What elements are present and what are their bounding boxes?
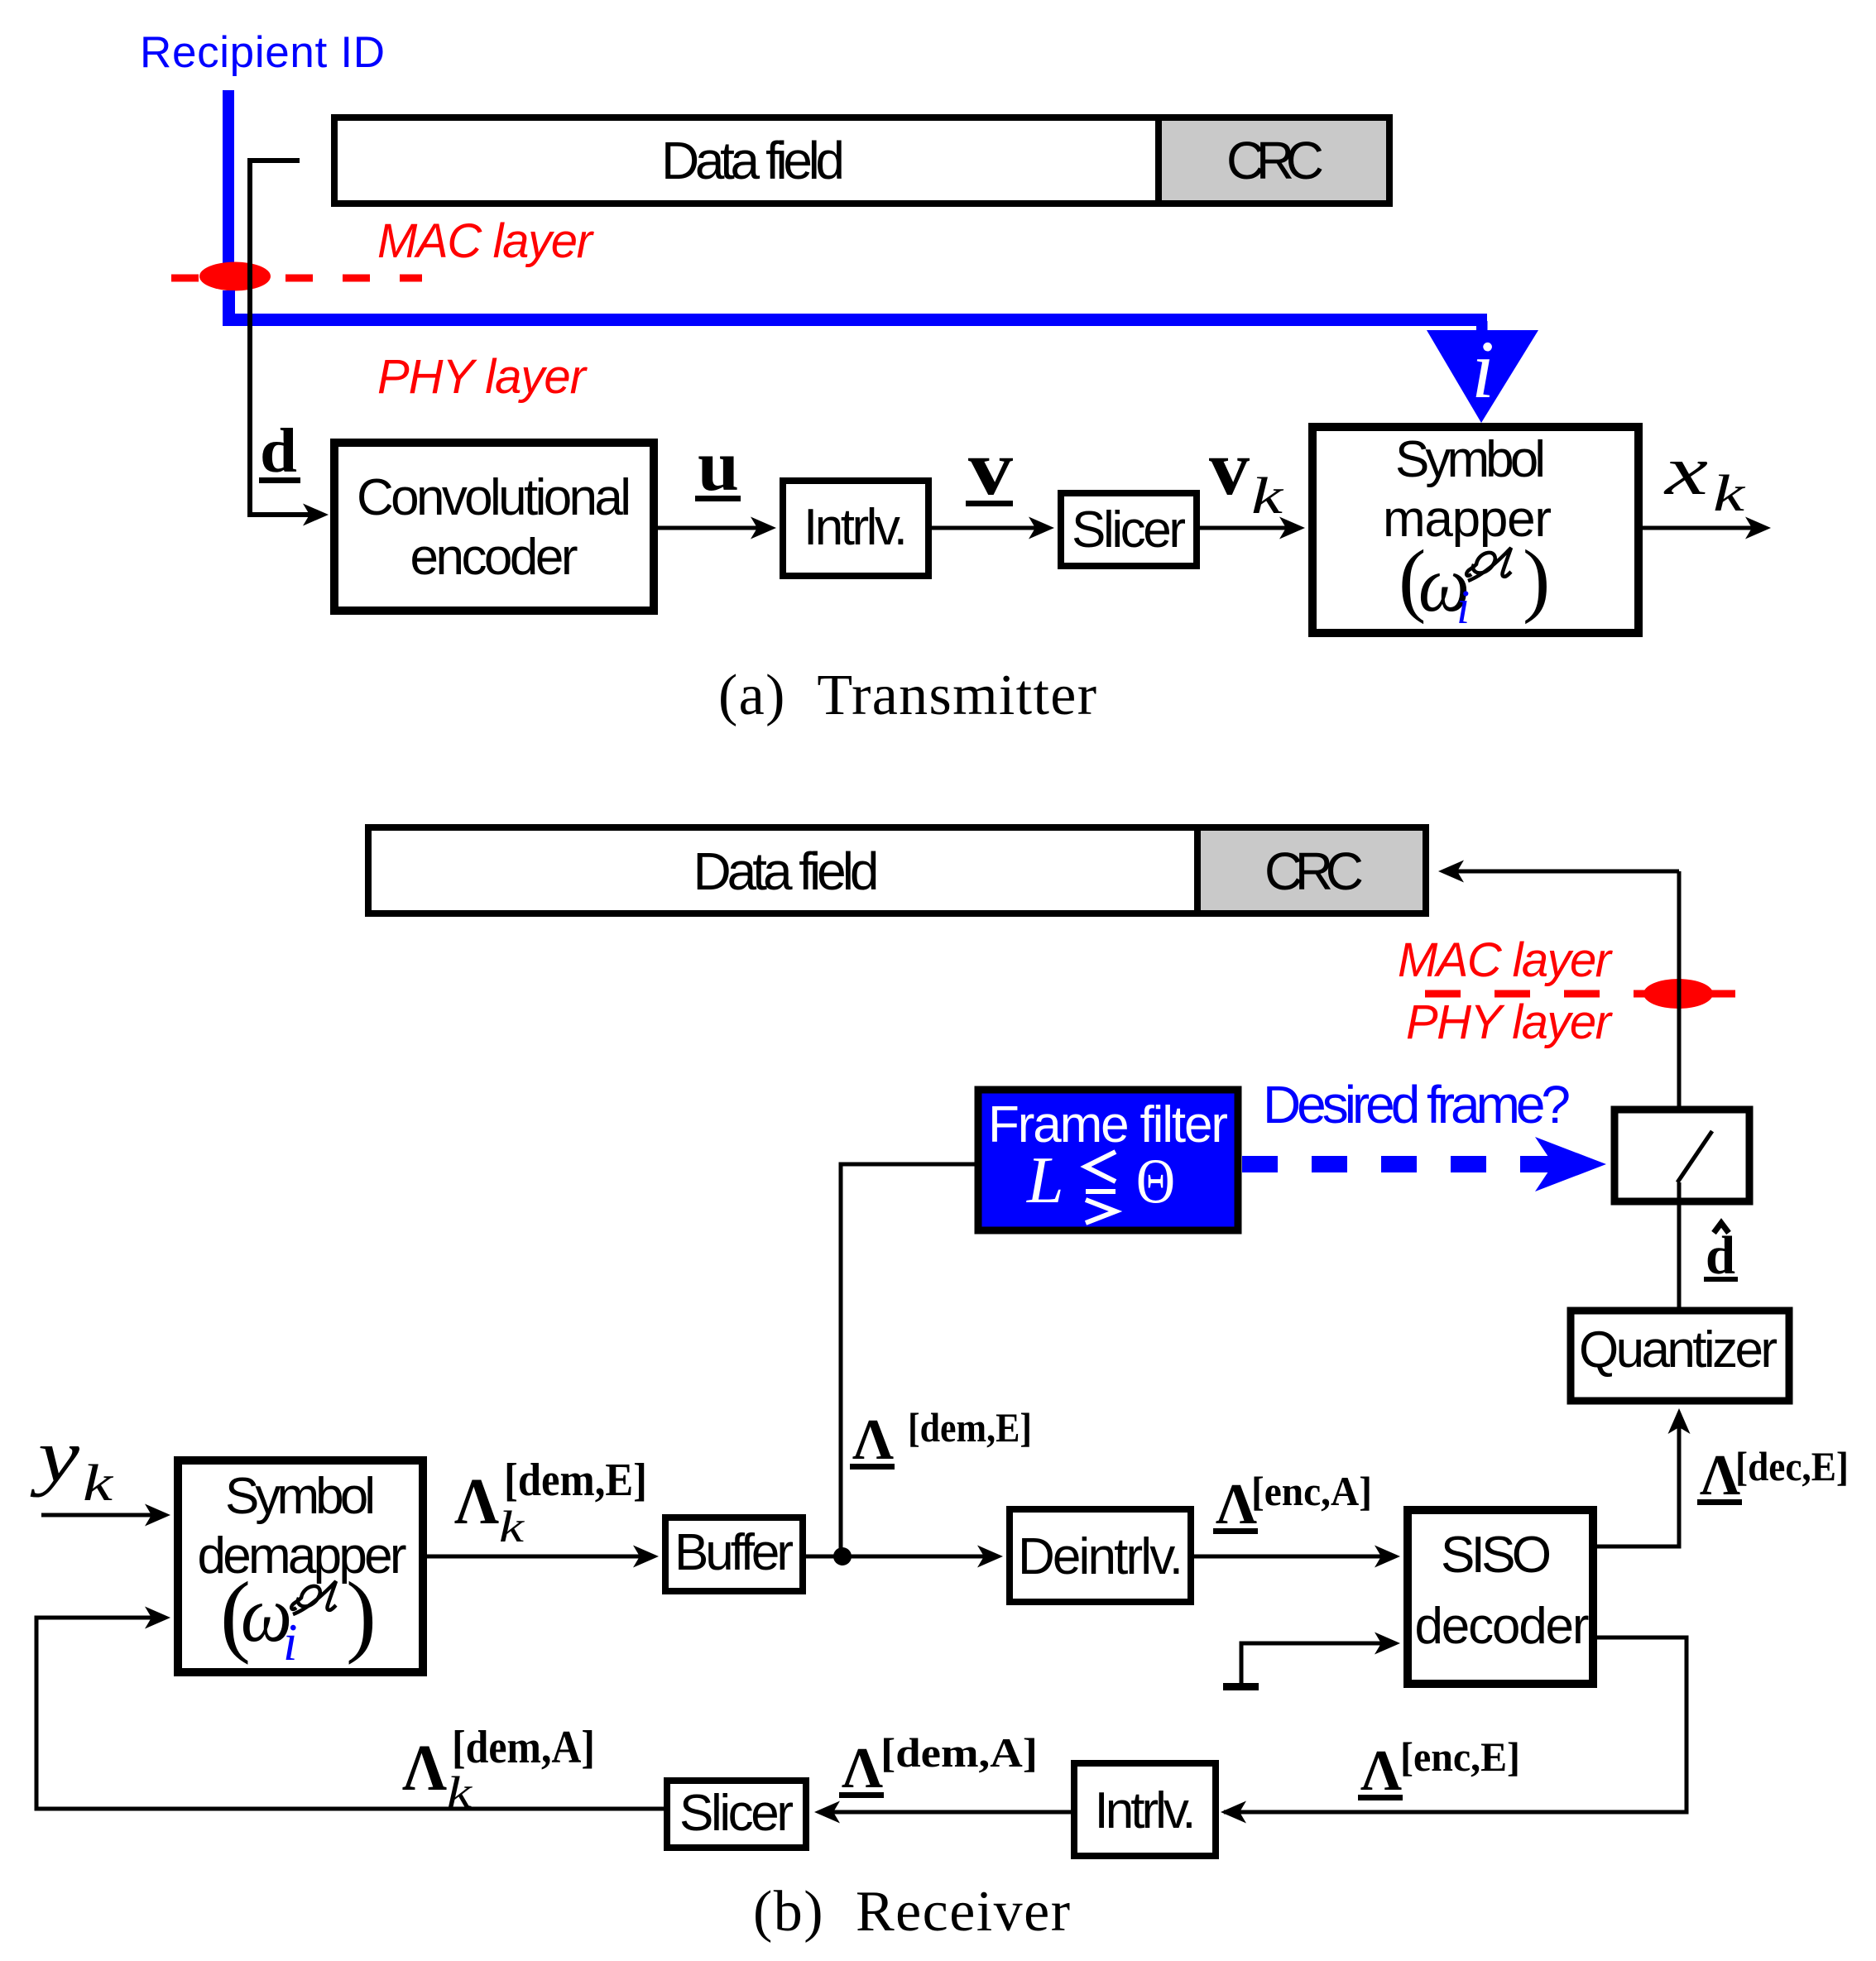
wire: interleaver to slicer (receiver) (821, 1810, 1071, 1815)
box: Intrlv. (receiver) (1074, 1763, 1216, 1856)
svg-text:PHY layer: PHY layer (1406, 995, 1614, 1049)
svg-text:k: k (1251, 468, 1284, 525)
svg-text:i: i (1456, 580, 1470, 634)
svg-text:k: k (83, 1455, 114, 1512)
svg-text:decoder: decoder (1415, 1598, 1590, 1655)
box: Data field frame (receiver) (368, 827, 1426, 913)
wire: buffer to deinterleaver through junction (806, 1555, 995, 1559)
box: Deintrlv. (1010, 1509, 1191, 1602)
svg-text:Slicer: Slicer (679, 1785, 794, 1842)
box: Quantizer (1571, 1311, 1789, 1401)
svg-text:Frame filter: Frame filter (988, 1096, 1228, 1153)
svg-text:k: k (499, 1502, 525, 1551)
svg-text:y: y (30, 1414, 80, 1498)
svg-text:i: i (283, 1613, 298, 1671)
svg-text:d: d (260, 416, 297, 486)
box: Slicer (transmitter) (1061, 493, 1197, 566)
svg-text:Symbol: Symbol (225, 1468, 376, 1525)
svg-text:[dem,A]: [dem,A] (880, 1729, 1038, 1776)
svg-text:): ) (1523, 533, 1550, 625)
wire: quantizer/switch line up to CRC (arrow into CRC) (1444, 870, 1679, 874)
svg-text:k: k (1713, 466, 1746, 522)
node: junction dot (833, 1547, 852, 1565)
wire: junction up to frame filter input (841, 1164, 975, 1556)
svg-text:[enc,E]: [enc,E] (1400, 1733, 1520, 1780)
svg-text:[dem,E]: [dem,E] (908, 1404, 1032, 1450)
box: Data field frame (transmitter) (334, 117, 1389, 204)
wire: y_k arrow into symbol demapper (41, 1513, 162, 1517)
svg-text:Λ: Λ (454, 1466, 499, 1538)
box: CRC segment (transmitter, gray) (1159, 117, 1389, 204)
component: red MAC/PHY dashed line (receiver) (1425, 990, 1735, 998)
wire: blue stub down to triangle (1476, 321, 1488, 348)
component: red ellipse layer-crossing marker (transmitter) (199, 262, 271, 291)
svg-text:Λ: Λ (1700, 1444, 1740, 1508)
wire: SISO bottom output to feedback loop (1224, 1637, 1686, 1812)
wire: blue dashed arrow Frame filter to switch (1242, 1156, 1556, 1172)
svg-text:Recipient ID: Recipient ID (140, 28, 385, 77)
svg-text:u: u (698, 426, 739, 506)
svg-text:MAC layer: MAC layer (1398, 933, 1614, 987)
arrowhead into encoder (303, 504, 329, 526)
svg-text:Intrlv.: Intrlv. (1095, 1782, 1197, 1839)
svg-text:(a) Transmitter: (a) Transmitter (718, 664, 1096, 727)
label: (omega_i^A) inside symbol mapper (1399, 533, 1550, 634)
svg-text:[dem,A]: [dem,A] (452, 1722, 595, 1773)
svg-text:Buffer: Buffer (674, 1524, 794, 1581)
svg-text:[enc,A]: [enc,A] (1251, 1468, 1372, 1514)
box: Convolutional encoder (334, 443, 654, 611)
svg-text:x: x (1662, 432, 1708, 510)
wire: demapper to buffer with label Lambda_k[dem,E] (423, 1555, 650, 1559)
svg-text:L: L (1026, 1144, 1064, 1217)
component: switch contact diagonal (1677, 1131, 1712, 1182)
svg-text:MAC layer: MAC layer (377, 214, 595, 268)
svg-text:Λ: Λ (842, 1737, 883, 1800)
svg-text:(b) Receiver: (b) Receiver (753, 1880, 1070, 1944)
svg-text:PHY layer: PHY layer (377, 350, 588, 404)
wire: symbol mapper output x_k (1639, 526, 1763, 530)
wire: deinterleaver to SISO decoder (1191, 1555, 1392, 1559)
box: Buffer (665, 1517, 803, 1591)
svg-text:Intrlv.: Intrlv. (804, 499, 908, 556)
box: Frame filter (blue) (978, 1090, 1238, 1230)
svg-text:Slicer: Slicer (1072, 501, 1186, 559)
wire: interleaver to slicer (932, 526, 1046, 530)
svg-text:): ) (346, 1564, 377, 1666)
box: Symbol demapper (178, 1460, 423, 1672)
box: Slicer (receiver) (667, 1781, 806, 1848)
wire: encoder to interleaver (654, 526, 768, 530)
svg-text:Data field: Data field (661, 131, 845, 190)
svg-text:Λ: Λ (1360, 1739, 1402, 1803)
svg-text:Convolutional: Convolutional (357, 469, 631, 526)
svg-text:v: v (968, 425, 1013, 511)
wire: slicer to symbol mapper (1200, 526, 1297, 530)
wire: switch to quantizer (1677, 1182, 1682, 1307)
wire: SISO top output up into quantizer (1593, 1417, 1679, 1546)
svg-text:Desired frame?: Desired frame? (1263, 1075, 1571, 1134)
wire: tap from Data field box down to encoder input (250, 161, 323, 515)
svg-text:Λ: Λ (402, 1733, 447, 1805)
svg-text:Quantizer: Quantizer (1579, 1321, 1778, 1378)
label: (omega_i^A) inside symbol demapper (220, 1564, 377, 1671)
svg-text:[dem,E]: [dem,E] (504, 1455, 647, 1506)
wire: slicer output feedback to demapper second input (36, 1618, 667, 1809)
svg-text:CRC: CRC (1226, 131, 1324, 190)
box: SISO decoder (1408, 1510, 1593, 1684)
svg-text:Symbol: Symbol (1395, 431, 1546, 488)
node: blue triangle index arrow into symbol mapper (1427, 330, 1538, 423)
svg-text:[dec,E]: [dec,E] (1735, 1443, 1849, 1489)
svg-text:v: v (1209, 425, 1250, 511)
wire: vertical from CRC corner down into switch box (1677, 871, 1682, 1127)
svg-text:Deintrlv.: Deintrlv. (1018, 1528, 1183, 1585)
box: switch (1615, 1110, 1749, 1201)
svg-text:SISO: SISO (1441, 1527, 1552, 1584)
svg-text:k: k (447, 1767, 473, 1817)
svg-text:encoder: encoder (410, 529, 578, 586)
svg-text:i: i (1471, 324, 1495, 415)
svg-text:Data field: Data field (693, 841, 880, 901)
box: CRC segment (receiver, gray) (1197, 827, 1426, 913)
component: ground/termination into SISO lower input (1241, 1643, 1392, 1685)
svg-text:Θ: Θ (1136, 1145, 1175, 1216)
svg-text:Λ: Λ (852, 1408, 894, 1472)
box: Intrlv. (transmitter interleaver) (783, 481, 928, 576)
component: red ellipse layer-crossing marker (receiver) (1643, 979, 1713, 1009)
wire: blue recipient-ID vertical line (upper segment) (223, 90, 234, 275)
wire: blue recipient-ID vertical line (lower segment through corner) (229, 290, 1488, 320)
box: Symbol mapper (1312, 427, 1639, 633)
component: red MAC/PHY boundary dashed line (transmitter) (171, 275, 422, 282)
svg-text:CRC: CRC (1264, 841, 1364, 901)
